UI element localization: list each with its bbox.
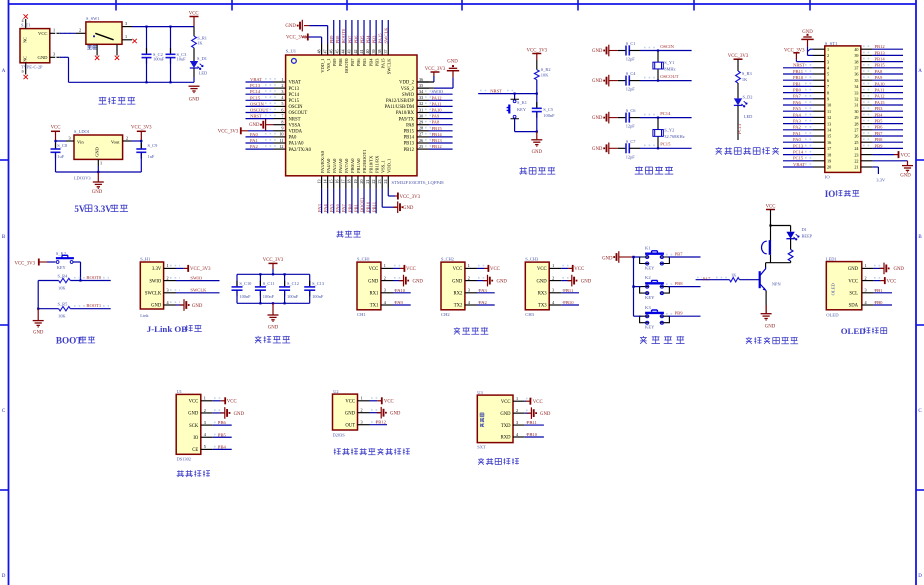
svg-text:PB12: PB12 <box>376 420 387 425</box>
svg-text:VBAT: VBAT <box>289 81 301 86</box>
svg-text:PB12: PB12 <box>432 144 443 149</box>
svg-text:RX2: RX2 <box>453 292 463 297</box>
svg-text:PC13: PC13 <box>793 143 804 148</box>
svg-text:D: D <box>918 574 922 579</box>
svg-text:S_K2: S_K2 <box>56 251 66 256</box>
svg-text:1: 1 <box>361 396 363 401</box>
svg-text:S_R4: S_R4 <box>58 273 69 278</box>
svg-text:PB4: PB4 <box>368 58 373 67</box>
svg-text:PB5: PB5 <box>875 119 884 124</box>
svg-text:CH2: CH2 <box>441 312 450 317</box>
svg-text:S_CH2: S_CH2 <box>441 257 454 262</box>
svg-text:S_H1: S_H1 <box>140 257 150 262</box>
svg-text:PA10/RX: PA10/RX <box>396 111 415 116</box>
svg-text:35: 35 <box>419 83 423 88</box>
svg-text:PB9: PB9 <box>875 143 884 148</box>
svg-text:30: 30 <box>854 109 858 114</box>
svg-text:S_C1: S_C1 <box>626 41 636 46</box>
svg-text:10K: 10K <box>541 73 549 78</box>
svg-text:VCC_3V3: VCC_3V3 <box>190 267 211 272</box>
svg-text:PA0: PA0 <box>250 132 258 137</box>
svg-text:SWCLK: SWCLK <box>384 27 389 44</box>
svg-text:PA3: PA3 <box>479 288 487 293</box>
svg-text:PA2: PA2 <box>479 300 487 305</box>
svg-text:33: 33 <box>854 90 858 95</box>
svg-text:1: 1 <box>53 28 55 33</box>
svg-text:22: 22 <box>371 180 376 184</box>
svg-text:46: 46 <box>329 50 334 54</box>
svg-text:PB10: PB10 <box>527 432 538 437</box>
svg-text:5: 5 <box>827 72 829 77</box>
svg-text:17: 17 <box>341 180 346 184</box>
svg-text:PB14: PB14 <box>404 136 415 141</box>
svg-text:S_Y2: S_Y2 <box>664 128 674 133</box>
svg-text:SWCLK: SWCLK <box>145 292 162 297</box>
svg-text:44: 44 <box>341 50 346 54</box>
svg-text:3: 3 <box>53 52 55 57</box>
svg-text:PB2/BOOT1: PB2/BOOT1 <box>362 149 367 173</box>
svg-text:39: 39 <box>854 53 858 58</box>
svg-text:26: 26 <box>854 134 858 139</box>
svg-text:S_ST1: S_ST1 <box>825 41 838 46</box>
svg-text:PC13: PC13 <box>250 83 261 88</box>
svg-text:PB11: PB11 <box>527 420 538 425</box>
svg-text:4: 4 <box>468 300 471 305</box>
svg-text:S_CH1: S_CH1 <box>357 257 370 262</box>
svg-text:2: 2 <box>516 408 518 413</box>
svg-text:GND: GND <box>848 267 859 272</box>
svg-text:12pF: 12pF <box>626 87 636 92</box>
svg-text:IO: IO <box>193 436 199 441</box>
svg-text:VSS_1: VSS_1 <box>326 59 331 72</box>
svg-text:PA9: PA9 <box>395 300 403 305</box>
svg-text:12pF: 12pF <box>626 154 636 159</box>
svg-text:12pF: 12pF <box>626 57 636 62</box>
svg-text:PA10: PA10 <box>395 288 406 293</box>
svg-text:GND: GND <box>249 123 260 128</box>
svg-text:5: 5 <box>281 101 283 106</box>
svg-text:2: 2 <box>361 408 363 413</box>
svg-text:NC: NC <box>23 56 28 62</box>
svg-text:CE: CE <box>192 448 198 453</box>
svg-text:VSS_1: VSS_1 <box>380 160 385 173</box>
svg-text:PA7: PA7 <box>703 276 711 281</box>
svg-text:9: 9 <box>827 97 829 102</box>
svg-text:VCC_3V3: VCC_3V3 <box>15 261 36 266</box>
svg-text:1: 1 <box>516 396 518 401</box>
svg-text:PB8: PB8 <box>875 137 884 142</box>
svg-text:GND: GND <box>345 411 356 416</box>
svg-text:TX3: TX3 <box>538 304 547 309</box>
svg-text:PA9: PA9 <box>432 114 440 119</box>
svg-text:32.768KHz: 32.768KHz <box>664 134 684 139</box>
svg-text:3: 3 <box>865 288 867 293</box>
svg-text:1: 1 <box>552 263 554 268</box>
svg-text:PB5: PB5 <box>218 432 227 437</box>
svg-text:GND: GND <box>592 116 603 121</box>
svg-text:KEY: KEY <box>645 295 655 300</box>
svg-text:20: 20 <box>827 165 831 170</box>
svg-text:PB15: PB15 <box>875 63 886 68</box>
svg-text:GND: GND <box>92 190 103 195</box>
svg-text:NRST: NRST <box>289 117 301 122</box>
svg-text:3: 3 <box>204 420 206 425</box>
svg-text:GND: GND <box>189 98 200 103</box>
svg-text:PA12: PA12 <box>875 94 886 99</box>
svg-text:9: 9 <box>22 70 24 74</box>
svg-text:2: 2 <box>79 28 81 33</box>
svg-text:PB13: PB13 <box>875 50 886 55</box>
svg-text:VCC_3V3: VCC_3V3 <box>400 195 421 200</box>
svg-text:VCC_3V3: VCC_3V3 <box>218 129 239 134</box>
svg-text:GND: GND <box>151 304 162 309</box>
svg-text:PB13: PB13 <box>404 142 415 147</box>
svg-text:VDDA: VDDA <box>289 130 303 135</box>
svg-text:PB4: PB4 <box>365 35 370 44</box>
svg-text:PB11: PB11 <box>372 201 377 212</box>
svg-text:A: A <box>2 69 6 74</box>
svg-text:40: 40 <box>365 50 370 54</box>
svg-text:PC15: PC15 <box>289 99 300 104</box>
svg-text:OUT: OUT <box>345 423 355 428</box>
svg-text:SXT: SXT <box>477 445 486 450</box>
svg-text:22: 22 <box>854 159 858 164</box>
svg-text:PA7: PA7 <box>793 94 801 99</box>
svg-text:PB9: PB9 <box>329 35 334 44</box>
svg-text:29: 29 <box>419 120 423 125</box>
svg-text:PC15: PC15 <box>660 142 671 147</box>
svg-text:STM32F103C8T6_LQFP48: STM32F103C8T6_LQFP48 <box>392 180 445 185</box>
svg-text:GND: GND <box>497 279 508 284</box>
svg-text:40: 40 <box>854 47 858 52</box>
svg-text:PA12: PA12 <box>432 95 443 100</box>
svg-text:S_LDO1: S_LDO1 <box>74 129 90 134</box>
svg-text:30: 30 <box>419 113 423 118</box>
svg-text:PC15: PC15 <box>250 95 261 100</box>
svg-text:12: 12 <box>827 115 831 120</box>
svg-text:GND: GND <box>602 257 613 262</box>
svg-text:IO: IO <box>825 175 831 180</box>
svg-text:100nF: 100nF <box>543 113 555 118</box>
svg-text:BEEP: BEEP <box>802 233 813 238</box>
svg-text:1K: 1K <box>197 41 203 46</box>
svg-text:C: C <box>2 409 6 414</box>
svg-text:31: 31 <box>854 103 858 108</box>
svg-text:3.3V: 3.3V <box>152 267 162 272</box>
svg-text:PB7: PB7 <box>875 131 884 136</box>
svg-text:LDO3V3: LDO3V3 <box>74 176 91 181</box>
svg-text:BOOT: BOOT <box>56 336 83 346</box>
svg-text:3.3V: 3.3V <box>876 178 886 183</box>
svg-text:28: 28 <box>419 126 423 131</box>
svg-text:PA11/USB/DM: PA11/USB/DM <box>385 105 415 110</box>
svg-text:PB11: PB11 <box>793 69 804 74</box>
svg-text:8MHz: 8MHz <box>664 66 675 71</box>
svg-text:PB6: PB6 <box>875 125 884 130</box>
svg-text:1: 1 <box>204 396 206 401</box>
svg-text:IO: IO <box>825 189 836 199</box>
svg-text:S_C10: S_C10 <box>239 281 252 286</box>
svg-text:100nF: 100nF <box>312 294 324 299</box>
svg-text:29: 29 <box>854 115 858 120</box>
svg-text:100nF: 100nF <box>263 294 275 299</box>
svg-text:PA8: PA8 <box>875 69 883 74</box>
svg-text:GND: GND <box>532 150 543 155</box>
svg-text:OLED: OLED <box>841 326 866 336</box>
svg-text:PB3: PB3 <box>374 58 379 67</box>
svg-text:11: 11 <box>279 138 283 143</box>
svg-text:PB6: PB6 <box>353 35 358 44</box>
svg-text:PB12: PB12 <box>404 148 415 153</box>
svg-text:10K: 10K <box>58 285 66 290</box>
svg-text:S_D2: S_D2 <box>743 94 753 99</box>
svg-text:3: 3 <box>69 135 71 140</box>
svg-text:S_C13: S_C13 <box>312 281 325 286</box>
svg-text:27: 27 <box>419 132 423 137</box>
svg-text:PB0: PB0 <box>347 203 352 212</box>
svg-text:10: 10 <box>279 132 283 137</box>
svg-text:SWIO: SWIO <box>149 279 162 284</box>
svg-text:VBAT: VBAT <box>250 77 262 82</box>
svg-text:VCC_3V3: VCC_3V3 <box>131 125 152 130</box>
svg-text:D1: D1 <box>802 227 807 232</box>
svg-text:GND: GND <box>38 55 49 60</box>
svg-text:PA4: PA4 <box>793 112 801 117</box>
svg-text:PB9: PB9 <box>675 311 684 316</box>
svg-text:SWCLK: SWCLK <box>386 58 391 75</box>
svg-text:VCC: VCC <box>38 31 47 36</box>
svg-text:NC: NC <box>23 37 28 43</box>
svg-text:VSSA: VSSA <box>289 123 302 128</box>
svg-text:31: 31 <box>419 107 423 112</box>
svg-text:VCC: VCC <box>501 400 511 405</box>
svg-text:7: 7 <box>827 84 829 89</box>
svg-text:3: 3 <box>552 288 554 293</box>
svg-text:4: 4 <box>22 19 24 23</box>
svg-text:34: 34 <box>419 89 424 94</box>
svg-text:LED: LED <box>199 71 208 76</box>
svg-text:GND: GND <box>592 147 603 152</box>
svg-text:21: 21 <box>854 165 858 170</box>
svg-text:17: 17 <box>827 146 831 151</box>
svg-text:KEY: KEY <box>57 265 67 270</box>
svg-text:PB9: PB9 <box>332 58 337 67</box>
svg-text:PB0/A0: PB0/A0 <box>350 158 355 173</box>
svg-text:35: 35 <box>854 78 858 83</box>
svg-text:PA10: PA10 <box>432 108 443 113</box>
svg-text:38: 38 <box>377 50 382 54</box>
svg-text:VCC_3V3: VCC_3V3 <box>425 67 446 72</box>
svg-text:PB11/RX: PB11/RX <box>374 155 379 173</box>
svg-text:VSS_2: VSS_2 <box>401 87 415 92</box>
svg-text:GND: GND <box>536 279 547 284</box>
svg-text:BOOT0: BOOT0 <box>341 28 346 44</box>
svg-text:2: 2 <box>552 275 554 280</box>
svg-text:PA0: PA0 <box>793 137 801 142</box>
svg-text:16: 16 <box>827 140 831 145</box>
svg-text:GND: GND <box>94 147 99 157</box>
svg-text:3: 3 <box>468 288 470 293</box>
svg-text:16: 16 <box>335 180 340 184</box>
svg-text:PA9: PA9 <box>875 75 883 80</box>
svg-text:PB6: PB6 <box>356 58 361 67</box>
svg-text:GND: GND <box>765 325 776 330</box>
svg-text:GND: GND <box>900 173 911 178</box>
svg-text:8: 8 <box>281 120 283 125</box>
svg-text:VCC: VCC <box>345 400 355 405</box>
svg-text:C: C <box>918 409 922 414</box>
svg-text:GND: GND <box>592 79 603 84</box>
svg-text:KEY: KEY <box>517 107 527 112</box>
svg-text:D: D <box>2 574 6 579</box>
svg-text:B: B <box>2 235 6 240</box>
svg-text:K3: K3 <box>645 305 651 310</box>
svg-text:2: 2 <box>204 408 206 413</box>
svg-text:5: 5 <box>204 444 206 449</box>
svg-text:1: 1 <box>281 77 283 82</box>
svg-text:BOOT0: BOOT0 <box>86 275 102 280</box>
svg-text:38: 38 <box>854 59 858 64</box>
svg-text:GND: GND <box>268 326 279 331</box>
svg-text:4: 4 <box>552 300 555 305</box>
svg-text:3: 3 <box>125 21 127 26</box>
svg-text:36: 36 <box>419 77 423 82</box>
svg-text:VCC_3V3: VCC_3V3 <box>286 36 307 41</box>
svg-text:PB14: PB14 <box>875 57 886 62</box>
svg-text:PA4/A0: PA4/A0 <box>326 158 331 173</box>
svg-text:1: 1 <box>468 263 470 268</box>
svg-text:9: 9 <box>281 126 283 131</box>
svg-text:PA12/USB/DP: PA12/USB/DP <box>386 99 414 104</box>
svg-text:S_C9: S_C9 <box>148 143 159 148</box>
svg-text:PA6: PA6 <box>793 100 801 105</box>
svg-text:PB5: PB5 <box>362 58 367 67</box>
svg-text:PA6: PA6 <box>335 204 340 212</box>
svg-text:2: 2 <box>827 53 829 58</box>
svg-text:PA4: PA4 <box>323 204 328 212</box>
svg-text:PB0: PB0 <box>875 300 884 305</box>
svg-text:SDA: SDA <box>849 304 859 309</box>
svg-text:23: 23 <box>377 180 382 184</box>
svg-text:S_K1: S_K1 <box>517 100 527 105</box>
svg-text:VCC: VCC <box>901 153 911 158</box>
svg-text:PA2: PA2 <box>793 125 801 130</box>
svg-text:SCK: SCK <box>189 424 199 429</box>
svg-text:GND: GND <box>368 279 379 284</box>
svg-text:PA15: PA15 <box>380 58 385 69</box>
svg-text:SCL: SCL <box>849 292 858 297</box>
svg-text:CH3: CH3 <box>525 312 534 317</box>
svg-text:13: 13 <box>827 121 831 126</box>
svg-text:D203S: D203S <box>333 432 346 437</box>
svg-text:GND: GND <box>592 49 603 54</box>
svg-text:VBAT: VBAT <box>793 162 805 167</box>
svg-text:PC14: PC14 <box>793 150 804 155</box>
svg-text:37: 37 <box>383 50 388 54</box>
svg-text:PB11: PB11 <box>563 288 574 293</box>
svg-text:OSCIN: OSCIN <box>289 105 304 110</box>
svg-text:PA11: PA11 <box>875 88 886 93</box>
svg-text:S_C5: S_C5 <box>543 107 554 112</box>
svg-text:10: 10 <box>827 103 831 108</box>
svg-text:S_C4: S_C4 <box>626 71 637 76</box>
svg-text:20: 20 <box>359 180 364 184</box>
svg-text:LED1: LED1 <box>826 256 837 261</box>
svg-text:48: 48 <box>316 50 321 54</box>
svg-text:TX1: TX1 <box>370 304 379 309</box>
svg-text:PC14: PC14 <box>660 111 671 116</box>
svg-text:PA15: PA15 <box>378 33 383 44</box>
svg-text:32: 32 <box>419 101 423 106</box>
svg-text:PB1/A0: PB1/A0 <box>356 158 361 173</box>
svg-text:GND: GND <box>500 412 511 417</box>
svg-text:PA3/RX/A0: PA3/RX/A0 <box>320 150 325 173</box>
svg-text:PA7/A0: PA7/A0 <box>344 158 349 173</box>
svg-text:PA3: PA3 <box>317 204 322 212</box>
svg-text:7: 7 <box>281 113 283 118</box>
svg-text:GND: GND <box>285 24 296 29</box>
svg-text:PB15: PB15 <box>432 126 443 131</box>
svg-text:10uF: 10uF <box>177 57 187 62</box>
svg-text:4: 4 <box>281 95 284 100</box>
svg-text:19: 19 <box>353 180 358 184</box>
svg-text:PB10: PB10 <box>563 300 574 305</box>
svg-text:GND: GND <box>452 279 463 284</box>
svg-text:S_U1: S_U1 <box>286 49 297 54</box>
svg-text:32: 32 <box>854 97 858 102</box>
svg-text:SWIO: SWIO <box>432 89 444 94</box>
svg-text:100nF: 100nF <box>153 57 165 62</box>
svg-text:3: 3 <box>516 420 518 425</box>
svg-text:KEY: KEY <box>645 265 655 270</box>
svg-text:VCC: VCC <box>51 125 61 130</box>
svg-text:PB0: PB0 <box>793 88 802 93</box>
svg-text:NRST: NRST <box>250 114 262 119</box>
svg-text:2: 2 <box>167 275 169 280</box>
svg-text:PA1: PA1 <box>250 138 258 143</box>
svg-text:1: 1 <box>167 263 169 268</box>
svg-text:S_C6: S_C6 <box>626 108 637 113</box>
svg-text:43: 43 <box>347 50 352 54</box>
svg-text:S_C7: S_C7 <box>626 139 637 144</box>
svg-text:OSCOUT: OSCOUT <box>660 74 679 79</box>
svg-text:OSCOUT: OSCOUT <box>289 111 308 116</box>
svg-text:PA8: PA8 <box>432 120 440 125</box>
svg-text:VCC_3V3: VCC_3V3 <box>527 48 548 53</box>
svg-text:RX3: RX3 <box>538 292 548 297</box>
svg-text:VCC_3V3: VCC_3V3 <box>263 258 284 263</box>
svg-text:27: 27 <box>854 128 858 133</box>
svg-text:15: 15 <box>329 180 334 184</box>
svg-text:26: 26 <box>419 138 423 143</box>
svg-text:PB7: PB7 <box>347 35 352 44</box>
svg-text:1K: 1K <box>742 77 748 82</box>
svg-text:PA0: PA0 <box>289 136 298 141</box>
svg-text:12: 12 <box>279 144 283 149</box>
svg-text:S_C12: S_C12 <box>287 281 299 286</box>
svg-text:PA15: PA15 <box>875 100 886 105</box>
svg-text:PB7: PB7 <box>350 58 355 67</box>
svg-text:2: 2 <box>865 275 867 280</box>
svg-text:BOOT1: BOOT1 <box>86 303 102 308</box>
svg-text:S_Y1: S_Y1 <box>664 60 674 65</box>
svg-text:2: 2 <box>126 135 128 140</box>
svg-text:OSCIN: OSCIN <box>660 44 674 49</box>
svg-text:VCC: VCC <box>533 400 543 405</box>
svg-text:23: 23 <box>854 152 858 157</box>
svg-text:NRST: NRST <box>793 63 805 68</box>
svg-text:U1: U1 <box>177 389 182 394</box>
